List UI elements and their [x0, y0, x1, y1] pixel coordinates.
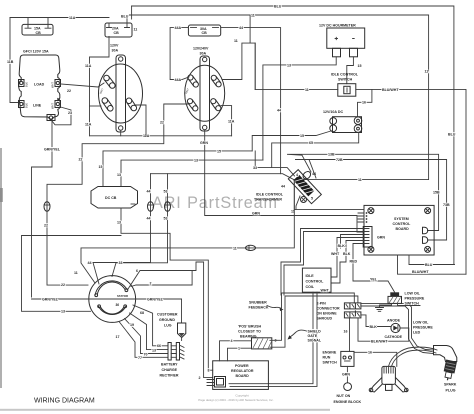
- svg-text:BLK: BLK: [25, 82, 29, 87]
- scan artifacts: [0, 148, 2, 388]
- low oil pressure LED: [385, 318, 434, 339]
- svg-text:1: 1: [238, 347, 240, 351]
- svg-text:13: 13: [287, 63, 291, 67]
- svg-text:4: 4: [296, 173, 298, 177]
- spark plug wire: [389, 347, 438, 366]
- svg-text:13: 13: [117, 221, 121, 225]
- svg-text:SIGNAL: SIGNAL: [308, 338, 322, 342]
- svg-text:PRESSURE: PRESSURE: [413, 326, 433, 330]
- wire GRN/YEL from GFCI down: [32, 120, 53, 297]
- wire 16 from connector to engine run switch: [349, 318, 351, 352]
- svg-text:11: 11: [425, 70, 429, 74]
- svg-text:68: 68: [140, 311, 144, 315]
- svg-text:SHROUD: SHROUD: [317, 317, 333, 321]
- svg-text:CONNECTOR: CONNECTOR: [317, 307, 340, 311]
- svg-text:WHT: WHT: [51, 103, 55, 109]
- svg-text:44A: 44A: [175, 78, 182, 82]
- svg-text:BLU: BLU: [274, 5, 282, 9]
- nut on engine block: [344, 383, 352, 391]
- svg-text:77: 77: [138, 356, 142, 360]
- customer ground lug: [157, 313, 186, 341]
- svg-text:15B: 15B: [433, 191, 440, 195]
- svg-text:44: 44: [147, 217, 151, 221]
- svg-text:TRANSFORMER: TRANSFORMER: [254, 198, 282, 202]
- svg-text:BLU/WHT: BLU/WHT: [382, 88, 399, 92]
- engine run switch: [323, 351, 355, 367]
- svg-text:16: 16: [368, 351, 372, 355]
- pos brush closest to bearing: [238, 325, 277, 349]
- svg-text:BOARD: BOARD: [396, 227, 410, 231]
- wire 44 horizontal to transformer: [151, 174, 296, 181]
- svg-text:ON ENGINE: ON ENGINE: [317, 312, 338, 316]
- ignition coil: [369, 366, 408, 392]
- svg-text:CONTROL: CONTROL: [306, 280, 325, 284]
- wire RED/YEL to low oil switch: [353, 244, 395, 293]
- idle control coil: [302, 268, 331, 292]
- svg-text:BLK: BLK: [25, 103, 29, 108]
- svg-text:GROUND: GROUND: [159, 318, 175, 322]
- GFCI receptacle: [19, 50, 61, 121]
- wire BLU/WHT from board bottom: [398, 255, 467, 274]
- svg-text:33: 33: [119, 261, 123, 265]
- svg-text:CB: CB: [114, 31, 120, 35]
- stator GRN/YEL left: [32, 298, 182, 300]
- wire GRN from 120/240V ground down: [205, 130, 364, 232]
- svg-text:11: 11: [251, 14, 255, 18]
- wire bundle from board connector (staircase): [281, 229, 357, 296]
- circuit breaker 15A CB: [22, 24, 53, 35]
- svg-text:CUSTOMER: CUSTOMER: [157, 313, 178, 317]
- svg-text:REGULATOR: REGULATOR: [231, 369, 254, 373]
- connector on board left: [363, 227, 372, 248]
- svg-text:GRN: GRN: [342, 373, 350, 377]
- svg-text:6: 6: [136, 269, 138, 273]
- wires from idle control coil bottom: [229, 292, 313, 384]
- svg-text:GRN: GRN: [200, 141, 208, 145]
- svg-text:11: 11: [358, 178, 362, 182]
- svg-text:20A: 20A: [112, 27, 119, 31]
- wire from left margin riser: [22, 236, 122, 312]
- wire 4 to brush: [220, 341, 252, 361]
- bullet connector on 22 wire: [44, 202, 50, 212]
- idle control switch: [331, 73, 359, 97]
- svg-text:YEL: YEL: [370, 277, 378, 281]
- 2-pin connector on engine shroud: [317, 302, 361, 321]
- svg-text:11: 11: [134, 28, 138, 32]
- svg-text:SNUBBER: SNUBBER: [249, 301, 267, 305]
- circuit breaker 30A CB: [188, 25, 220, 36]
- svg-text:33: 33: [253, 166, 257, 170]
- svg-text:WHT: WHT: [51, 82, 55, 88]
- svg-text:BLK: BLK: [338, 244, 346, 248]
- svg-text:12V DC HOURMETER: 12V DC HOURMETER: [319, 24, 356, 28]
- svg-text:CLOSEST TO: CLOSEST TO: [238, 330, 261, 334]
- svg-text:GRN/YEL: GRN/YEL: [147, 297, 164, 301]
- svg-text:30A: 30A: [112, 49, 119, 53]
- wire 11A vertical left of 120V receptacle: [90, 37, 110, 136]
- wire 33 from stator to transformer: [254, 43, 256, 89]
- svg-text:72B: 72B: [336, 158, 343, 162]
- wire BLU/WHT from ICS right: [356, 89, 466, 274]
- svg-text:11: 11: [234, 39, 238, 43]
- svg-text:22: 22: [61, 283, 65, 287]
- svg-text:LOW OIL: LOW OIL: [413, 321, 429, 325]
- wire BLK/WHT from LED: [358, 318, 409, 341]
- idle control transformer: [254, 165, 326, 204]
- svg-text:SWITCH: SWITCH: [338, 77, 353, 81]
- power regulator board: [199, 361, 269, 390]
- wire 11 to ICS left: [255, 88, 338, 90]
- D connectors on board right: [423, 227, 428, 234]
- wire BLU top: [132, 6, 454, 265]
- svg-text:36: 36: [116, 303, 120, 307]
- svg-text:23: 23: [68, 111, 72, 115]
- svg-text:ENGINE: ENGINE: [323, 351, 337, 355]
- snubber twisted pair from brush to 2-pin connector: [270, 293, 354, 340]
- wire 15 from hourmeter right to ICS: [347, 57, 354, 84]
- spark plug: [434, 346, 457, 393]
- svg-text:4: 4: [231, 339, 233, 343]
- wire 44A from 30A CB to 120/240V receptacle: [170, 28, 189, 80]
- wire GRN to nut on engine block: [346, 366, 348, 382]
- svg-text:CONTROL: CONTROL: [393, 222, 412, 226]
- svg-text:CATHODE: CATHODE: [385, 335, 403, 339]
- wire strap stub: [120, 131, 122, 136]
- svg-text:'POS' BRUSH: 'POS' BRUSH: [238, 325, 261, 329]
- wire 1 to brush: [228, 348, 252, 361]
- svg-text:NUT ON: NUT ON: [337, 394, 351, 398]
- svg-text:DC CB: DC CB: [105, 196, 117, 200]
- system control board: [357, 205, 434, 255]
- svg-text:66: 66: [157, 344, 161, 348]
- stator lead 2 to power regulator: [128, 262, 213, 378]
- stator GRN/YEL right to ground lug: [181, 299, 183, 323]
- svg-text:15: 15: [217, 149, 221, 153]
- svg-text:CB: CB: [202, 31, 208, 35]
- svg-text:BOARD: BOARD: [236, 374, 250, 378]
- wire 22 from 120/240V LL slot down and left: [47, 104, 188, 285]
- svg-text:13: 13: [61, 310, 65, 314]
- svg-text:IDLE CONTROL: IDLE CONTROL: [256, 193, 284, 197]
- svg-text:44: 44: [281, 185, 285, 189]
- svg-text:53: 53: [164, 190, 168, 194]
- svg-text:44: 44: [239, 26, 243, 30]
- svg-text:WHT: WHT: [331, 252, 340, 256]
- svg-text:22: 22: [67, 89, 71, 93]
- svg-text:2: 2: [199, 376, 201, 380]
- wire 13B transformer to board: [287, 154, 439, 230]
- svg-text:LOW OIL: LOW OIL: [405, 292, 421, 296]
- svg-text:LOAD: LOAD: [34, 83, 45, 87]
- wire 72B transformer to board: [295, 160, 447, 241]
- svg-text:BLU: BLU: [425, 263, 433, 267]
- svg-text:17: 17: [116, 335, 120, 339]
- receptacle 120V 30A: [98, 44, 142, 133]
- wire 15 from 12V/10A left: [252, 131, 332, 151]
- svg-text:STATOR: STATOR: [117, 294, 128, 298]
- svg-text:11A: 11A: [85, 123, 92, 127]
- wire 11A from 120/240V LR slot down: [221, 106, 232, 136]
- svg-text:44: 44: [277, 109, 281, 113]
- svg-text:WIRING DIAGRAM: WIRING DIAGRAM: [34, 398, 95, 405]
- svg-text:16: 16: [344, 330, 348, 334]
- low oil pressure switch: [376, 292, 425, 312]
- wire 44 from 30A CB right down: [221, 28, 281, 174]
- bullet connector 44: [88, 174, 154, 284]
- svg-text:120/240V: 120/240V: [193, 47, 209, 51]
- svg-text:73B: 73B: [443, 203, 450, 207]
- svg-text:22: 22: [79, 158, 83, 162]
- wire 13 from DC CB bottom to power regulator 8: [121, 208, 213, 370]
- svg-text:11A: 11A: [69, 16, 76, 20]
- svg-text:15A: 15A: [34, 26, 41, 30]
- wire 15 horizontal to DC CB: [103, 151, 252, 187]
- svg-text:BLU: BLU: [121, 15, 129, 19]
- wire BLK to LED: [361, 315, 391, 327]
- svg-text:SHIELD: SHIELD: [308, 329, 322, 333]
- 12V/10A DC receptacle: [323, 110, 362, 133]
- wire 11A horizontal lower: [90, 135, 232, 137]
- circuit breaker 20A CB: [105, 23, 132, 37]
- svg-text:44A: 44A: [175, 26, 182, 30]
- svg-text:13: 13: [152, 348, 156, 352]
- svg-text:IDLE CONTROL: IDLE CONTROL: [331, 73, 359, 77]
- svg-text:LED: LED: [413, 331, 421, 335]
- svg-text:11A: 11A: [85, 64, 92, 68]
- svg-text:11B: 11B: [7, 60, 14, 64]
- wire 11 long from stator to board: [294, 209, 364, 211]
- svg-text:22: 22: [44, 224, 48, 228]
- bullet connector 53: [112, 174, 171, 277]
- wire 13 from hourmeter left: [263, 57, 336, 160]
- svg-text:22: 22: [160, 121, 164, 125]
- svg-text:LINE: LINE: [33, 104, 42, 108]
- svg-text:120V: 120V: [110, 44, 119, 48]
- wire 13 horizontal to DC CB: [121, 160, 263, 186]
- svg-text:8: 8: [208, 369, 210, 373]
- svg-text:30A: 30A: [200, 27, 207, 31]
- svg-text:WHT: WHT: [321, 289, 330, 293]
- svg-text:RECTIFIER: RECTIFIER: [160, 374, 179, 378]
- svg-text:65: 65: [309, 141, 313, 145]
- svg-text:2-PIN: 2-PIN: [317, 302, 327, 306]
- svg-text:COIL: COIL: [306, 285, 315, 289]
- svg-text:16: 16: [362, 101, 366, 105]
- wire 11 from 20A CB to right side: [127, 15, 149, 23]
- svg-text:11: 11: [74, 271, 78, 275]
- svg-text:CB: CB: [36, 31, 42, 35]
- svg-text:GRN: GRN: [377, 236, 385, 240]
- wire from 120V receptacle LL slot to 11A line: [90, 105, 102, 107]
- svg-text:POWER: POWER: [235, 364, 249, 368]
- shield gate signal pair: [361, 303, 433, 350]
- wire BLU from board bottom: [409, 255, 455, 265]
- svg-text:GATE: GATE: [308, 334, 318, 338]
- svg-text:30A: 30A: [200, 52, 207, 56]
- svg-text:SPARK: SPARK: [444, 383, 457, 387]
- svg-text:PLUG: PLUG: [446, 389, 456, 393]
- svg-text:12V/10A DC: 12V/10A DC: [323, 110, 343, 114]
- svg-text:BLK/WHT: BLK/WHT: [371, 340, 388, 344]
- svg-text:BLK: BLK: [370, 325, 378, 329]
- svg-text:15: 15: [358, 64, 362, 68]
- svg-text:15: 15: [300, 134, 304, 138]
- svg-text:ENGINE BLOCK: ENGINE BLOCK: [334, 400, 362, 404]
- svg-text:15: 15: [99, 165, 103, 169]
- svg-text:GRN/YEL: GRN/YEL: [42, 297, 59, 301]
- stator leads to battery charge rectifier: [133, 305, 168, 346]
- svg-text:Page design (c) 2004 - 2016 by: Page design (c) 2004 - 2016 by ARI Netwo…: [198, 398, 274, 402]
- svg-text:FEEDBACK: FEEDBACK: [249, 306, 269, 310]
- svg-text:SWITCH: SWITCH: [323, 361, 338, 365]
- svg-text:BLK: BLK: [343, 252, 351, 256]
- wire 11 transformer bottom lead: [296, 196, 300, 210]
- svg-text:GFCI 120V 15A: GFCI 120V 15A: [23, 50, 49, 54]
- svg-text:44: 44: [88, 261, 92, 265]
- svg-text:RED: RED: [350, 260, 358, 264]
- svg-text:BATTERY: BATTERY: [161, 363, 178, 367]
- svg-text:11: 11: [233, 246, 237, 250]
- wire from 120V receptacle R slot down to 11A line: [136, 105, 146, 136]
- wire 11B from GFCI line to 15A CB: [10, 17, 109, 19]
- wire 16 from ERS to ignition coil: [354, 352, 397, 366]
- svg-text:13: 13: [194, 158, 198, 162]
- svg-text:Copyright: Copyright: [235, 393, 248, 397]
- svg-text:SYSTEM: SYSTEM: [394, 217, 409, 221]
- wire 11 branch to ICS: [222, 15, 250, 80]
- svg-text:5: 5: [311, 197, 313, 201]
- svg-text:ANODE: ANODE: [387, 318, 401, 322]
- receptacle 120/240V 30A: [184, 47, 225, 132]
- wire 16 to 12V/10A DC: [358, 89, 372, 116]
- svg-text:GRN: GRN: [252, 212, 260, 216]
- svg-text:19: 19: [130, 323, 134, 327]
- wire 22 GFCI load to 120V receptacle: [61, 83, 105, 87]
- svg-text:13B: 13B: [328, 153, 335, 157]
- svg-text:PRESSURE: PRESSURE: [405, 297, 425, 301]
- svg-text:13: 13: [117, 173, 121, 177]
- svg-text:11: 11: [305, 88, 309, 92]
- svg-text:11A: 11A: [228, 120, 235, 124]
- breaker DC CB: [91, 187, 138, 209]
- svg-text:53: 53: [164, 217, 168, 221]
- wire 23 GFCI line loop: [52, 107, 71, 125]
- svg-text:BLU: BLU: [448, 133, 456, 137]
- svg-text:SWITCH: SWITCH: [405, 302, 420, 306]
- svg-text:BLU/WHT: BLU/WHT: [412, 270, 429, 274]
- wire 65 from 12V/10A right bottom: [272, 133, 359, 168]
- svg-text:RUN: RUN: [323, 356, 331, 360]
- svg-text:70: 70: [144, 352, 148, 356]
- svg-text:GRN/YEL: GRN/YEL: [44, 148, 61, 152]
- svg-text:44: 44: [147, 190, 151, 194]
- svg-text:2: 2: [150, 282, 152, 286]
- battery charge rectifier: [160, 343, 185, 378]
- hourmeter 12V DC: [319, 24, 365, 57]
- svg-text:LUG: LUG: [164, 324, 172, 328]
- stator: [89, 276, 136, 323]
- svg-text:IDLE: IDLE: [306, 274, 315, 278]
- bullet connector on 11 wire: [246, 245, 256, 250]
- svg-text:CHARGE: CHARGE: [162, 368, 178, 372]
